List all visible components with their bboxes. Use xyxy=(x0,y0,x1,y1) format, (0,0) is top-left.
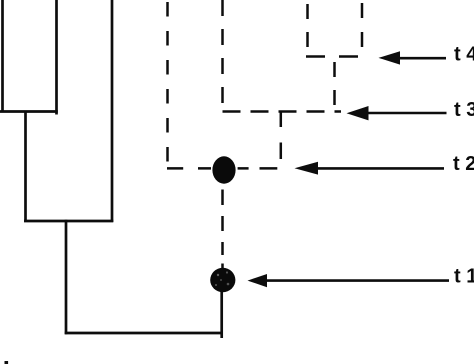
wire dashed horizontal t4 level xyxy=(306,55,364,58)
wire dashed vertical between node t2 and node t1 xyxy=(221,190,224,271)
wire solid vertical taxon B xyxy=(55,0,58,115)
svg-text:t 1: t 1 xyxy=(454,266,474,288)
wire dashed vertical left x=167 xyxy=(166,2,169,170)
node t1 junction dot xyxy=(210,268,235,292)
wire solid horizontal join ABC xyxy=(24,220,113,223)
svg-text:t 2: t 2 xyxy=(453,153,474,175)
arrow t3 xyxy=(347,106,447,120)
caption letter fragment bottom left xyxy=(5,361,9,364)
wire solid horizontal join AB xyxy=(0,110,58,113)
arrow t2 xyxy=(295,162,445,175)
arrow t1 xyxy=(248,274,450,287)
wire solid vertical from AB join xyxy=(24,111,27,223)
wire dashed vertical t4 left xyxy=(306,4,309,57)
node t2 junction dot xyxy=(212,156,235,183)
wire solid vertical taxon A xyxy=(1,0,4,113)
wire dashed horizontal t2 level xyxy=(167,167,277,170)
wire solid vertical from ABC join xyxy=(65,220,68,334)
wire dashed vertical t4 right xyxy=(361,3,364,57)
wire dashed vertical x=222 top xyxy=(221,0,224,112)
arrow t4 xyxy=(379,51,447,64)
wire solid vertical below node t1 xyxy=(220,288,223,338)
svg-text:t 3: t 3 xyxy=(454,99,474,121)
wire solid horizontal bottom root xyxy=(65,332,223,335)
wire dashed vertical t4 to t3 junction xyxy=(333,62,336,110)
wire solid vertical taxon C xyxy=(111,0,114,222)
wire dashed horizontal t3 level xyxy=(223,110,342,113)
svg-text:t 4: t 4 xyxy=(454,44,474,66)
wire dashed vertical t3 to t2 junction xyxy=(280,111,283,160)
